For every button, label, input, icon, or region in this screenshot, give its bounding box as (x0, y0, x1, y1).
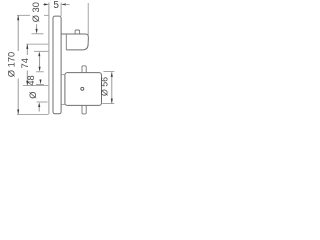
extension line above handle front face (87, 3, 89, 37)
upper handle (side view, Ø30) (61, 34, 88, 50)
svg-text:Ø 56: Ø 56 (100, 77, 110, 96)
escutcheon plate (side view, Ø170) (53, 16, 61, 114)
safety button dot on lower handle (81, 87, 84, 90)
svg-text:Ø 170: Ø 170 (6, 52, 16, 77)
dimension Ø170 (plate diameter) (17, 14, 30, 16)
svg-text:48: 48 (26, 75, 36, 85)
lower handle body (side view, Ø56) (65, 73, 102, 106)
dimension 74 (26, 43, 48, 45)
dimension 5 (plate thickness) (60, 3, 62, 17)
dimension Ø48 (39, 56, 41, 67)
svg-text:Ø: Ø (28, 92, 38, 99)
dimension Ø56 (lower handle diameter) (103, 70, 114, 72)
svg-text:5: 5 (53, 0, 59, 11)
lower handle bottom tab (82, 105, 86, 114)
svg-text:Ø 30: Ø 30 (31, 2, 41, 22)
background (0, 0, 120, 120)
wall / back flange line (48, 3, 50, 115)
svg-text:74: 74 (20, 58, 30, 68)
upper handle top tab (75, 30, 80, 34)
lower handle neck lines (61, 74, 65, 76)
dimension Ø30 (upper handle diameter) (32, 33, 44, 35)
lower handle top tab (82, 66, 86, 73)
upper handle seam (65, 34, 67, 50)
